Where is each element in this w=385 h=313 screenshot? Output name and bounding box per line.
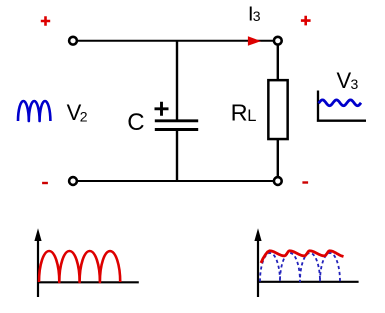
left graph vertical axis <box>37 234 39 297</box>
wire capacitor branch lower <box>176 130 178 182</box>
V3 mini axes <box>317 91 366 121</box>
terminal bottom-left <box>69 177 77 185</box>
polarity + top-right <box>301 16 311 26</box>
wire resistor branch lower <box>277 139 279 181</box>
svg-text:C: C <box>127 109 144 136</box>
wire resistor branch upper <box>277 41 279 81</box>
current arrow I3 <box>248 36 261 46</box>
right graph smoothed output curve <box>261 251 344 263</box>
left graph axis arrowhead <box>34 228 41 241</box>
right graph vertical axis <box>257 234 259 297</box>
svg-text:V: V <box>337 68 352 93</box>
capacitor C top plate <box>155 119 198 122</box>
svg-text:L: L <box>247 107 256 125</box>
capacitor C bottom plate <box>155 128 198 131</box>
wire bottom horizontal <box>73 180 278 182</box>
terminal bottom-right <box>274 177 282 185</box>
right graph horizontal axis <box>257 281 359 283</box>
wire top horizontal <box>73 40 278 42</box>
polarity - bottom-right <box>302 181 308 183</box>
terminal top-right <box>274 37 282 45</box>
resistor RL body <box>268 80 287 139</box>
svg-text:3: 3 <box>351 76 359 92</box>
left graph horizontal axis <box>37 281 139 283</box>
terminal top-left <box>69 37 77 45</box>
polarity + top-left <box>41 16 50 25</box>
V3 output waveform icon <box>319 100 361 106</box>
svg-text:3: 3 <box>253 8 261 24</box>
V2 input waveform icon <box>18 101 50 121</box>
wire capacitor branch upper <box>176 41 178 121</box>
svg-text:2: 2 <box>80 109 88 125</box>
right graph dashed rectified sine <box>260 253 340 281</box>
svg-text:R: R <box>231 99 248 125</box>
capacitor polarity + sign <box>155 102 169 116</box>
polarity - bottom-left <box>42 182 48 184</box>
right graph axis arrowhead <box>254 228 261 241</box>
left graph rectified sine waveform <box>39 251 120 282</box>
